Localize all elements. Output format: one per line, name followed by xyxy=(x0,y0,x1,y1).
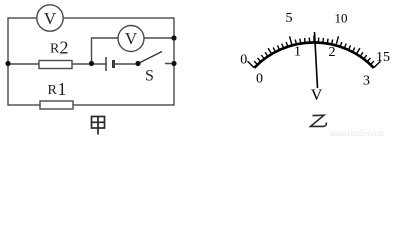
svg-text:R: R xyxy=(48,83,58,98)
svg-text:1: 1 xyxy=(294,45,301,60)
wire middle branch xyxy=(8,63,174,66)
svg-text:R: R xyxy=(50,42,60,57)
meter scale arc xyxy=(254,42,373,67)
battery B1 xyxy=(106,57,114,71)
node junction left xyxy=(5,61,10,66)
label 乙 xyxy=(311,115,327,126)
resistor R2 xyxy=(39,61,72,69)
svg-text:S: S xyxy=(145,68,154,85)
voltmeter U2 xyxy=(118,26,144,52)
svg-text:15: 15 xyxy=(376,50,390,65)
voltmeter U1 xyxy=(37,5,63,31)
node junction riser xyxy=(89,61,94,66)
label 甲 xyxy=(92,117,105,135)
svg-text:0: 0 xyxy=(240,53,247,68)
svg-text:3: 3 xyxy=(363,74,370,89)
meter needle xyxy=(315,32,318,88)
svg-text:V: V xyxy=(44,9,57,28)
svg-text:V: V xyxy=(311,87,323,104)
wire voltmeter V2 branch xyxy=(92,38,175,64)
node junction right top xyxy=(171,35,176,40)
node junction right bottom xyxy=(171,61,176,66)
meter inner scale labels xyxy=(256,45,370,89)
svg-text:V: V xyxy=(125,29,138,48)
wire outer loop xyxy=(8,18,174,105)
svg-text:1: 1 xyxy=(58,79,67,99)
meter tick marks xyxy=(248,36,381,68)
switch S xyxy=(138,52,162,64)
svg-text:0: 0 xyxy=(256,71,263,86)
meter outer scale labels xyxy=(240,11,390,68)
svg-text:manfen5.com: manfen5.com xyxy=(330,128,385,139)
svg-text:2: 2 xyxy=(329,45,336,60)
resistor R1 xyxy=(40,101,73,109)
svg-text:10: 10 xyxy=(335,11,348,26)
svg-text:2: 2 xyxy=(60,38,69,58)
svg-text:5: 5 xyxy=(286,11,293,26)
